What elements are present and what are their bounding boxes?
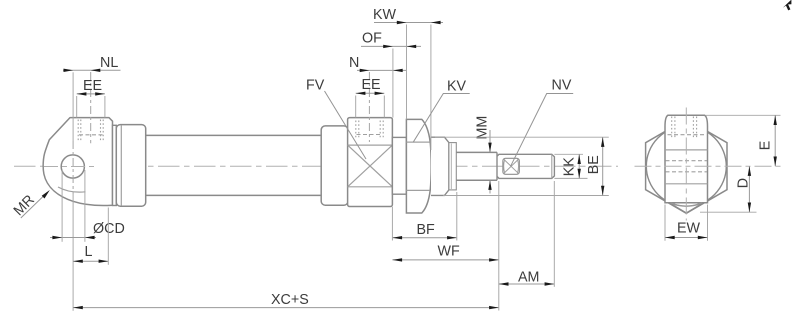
dimension NL <box>63 55 121 72</box>
bushing collar BE <box>431 137 449 195</box>
cursor icon <box>783 0 792 10</box>
square facet lines <box>348 144 393 146</box>
rear port bottom dashed line <box>79 134 103 136</box>
svg-text:N: N <box>349 55 359 71</box>
svg-text:L: L <box>85 244 93 260</box>
svg-text:KW: KW <box>373 7 397 23</box>
leader FV <box>306 77 366 159</box>
front port center line <box>368 72 370 142</box>
svg-text:ØCD: ØCD <box>93 221 125 237</box>
eye horizontal centerline <box>44 166 96 168</box>
end view inner solid lines <box>665 149 708 151</box>
front port hidden lines <box>356 121 383 139</box>
dimension EE rear <box>77 78 105 118</box>
dimension EE front <box>356 77 385 117</box>
end view horizontal centerline <box>635 165 783 167</box>
svg-text:BE: BE <box>586 155 602 174</box>
hex facet lines <box>406 141 429 143</box>
dimension MM <box>475 116 492 194</box>
svg-text:MM: MM <box>475 116 491 140</box>
eye center extension line <box>72 72 74 141</box>
front square block FV <box>348 118 393 207</box>
dimension CD <box>50 170 125 242</box>
rod wrench flats NV <box>503 158 519 174</box>
dimension EW <box>665 205 708 241</box>
front ring <box>321 126 348 205</box>
svg-text:OF: OF <box>362 30 382 46</box>
collar between square and hex <box>392 137 406 194</box>
dimension AM <box>499 181 555 287</box>
end view hidden dashed lines <box>666 160 708 162</box>
svg-text:FV: FV <box>306 77 325 93</box>
leader NV <box>511 78 574 167</box>
rod end thread block <box>497 152 554 180</box>
dimension N <box>349 55 406 72</box>
dimension XC+S <box>73 292 499 309</box>
end view circle <box>646 126 726 206</box>
clevis rear eye body <box>43 118 112 206</box>
end view hexagon <box>646 119 727 213</box>
svg-text:NV: NV <box>552 78 572 94</box>
svg-text:KV: KV <box>447 79 467 95</box>
svg-text:D: D <box>735 178 751 188</box>
main centerline <box>14 165 618 167</box>
leader KV <box>413 79 470 143</box>
svg-text:XC+S: XC+S <box>271 292 309 308</box>
dimension D <box>700 166 757 212</box>
svg-text:WF: WF <box>438 244 460 260</box>
end view hex bottom corner over body <box>670 203 704 213</box>
clevis eye hole CD <box>61 155 84 178</box>
svg-text:EW: EW <box>677 220 701 236</box>
svg-text:E: E <box>758 141 774 151</box>
dimension L <box>73 208 108 265</box>
dimension WF <box>392 181 498 311</box>
end view clevis body <box>665 115 708 203</box>
end view vertical centerline <box>685 108 687 221</box>
dimension KW <box>373 7 443 150</box>
rear ring <box>113 125 117 205</box>
svg-text:AM: AM <box>518 270 539 286</box>
svg-text:NL: NL <box>100 55 118 71</box>
dimension OF <box>361 30 421 117</box>
svg-text:EE: EE <box>83 78 102 94</box>
svg-text:EE: EE <box>362 77 381 93</box>
rear port thread hidden lines <box>78 120 103 142</box>
rear port center line <box>90 72 92 143</box>
hex nut KV <box>406 119 431 213</box>
piston rod <box>456 151 497 153</box>
svg-text:BF: BF <box>417 222 436 238</box>
cylinder tube <box>146 134 322 136</box>
bushing cap <box>449 143 456 190</box>
dimension BF <box>392 192 456 241</box>
dimension BE <box>435 137 609 195</box>
end view port hidden lines <box>672 117 697 140</box>
rear cap <box>116 125 145 207</box>
square X cross <box>348 145 393 187</box>
dimension E <box>706 115 781 166</box>
front port bottom dashed line <box>357 134 383 136</box>
clevis crimp arc <box>58 187 86 192</box>
leader MR <box>11 190 50 219</box>
dimension KK <box>554 154 587 178</box>
rear cap crimp line <box>120 125 122 206</box>
end view circle bottom arc over body <box>671 203 703 206</box>
svg-text:KK: KK <box>562 157 578 177</box>
